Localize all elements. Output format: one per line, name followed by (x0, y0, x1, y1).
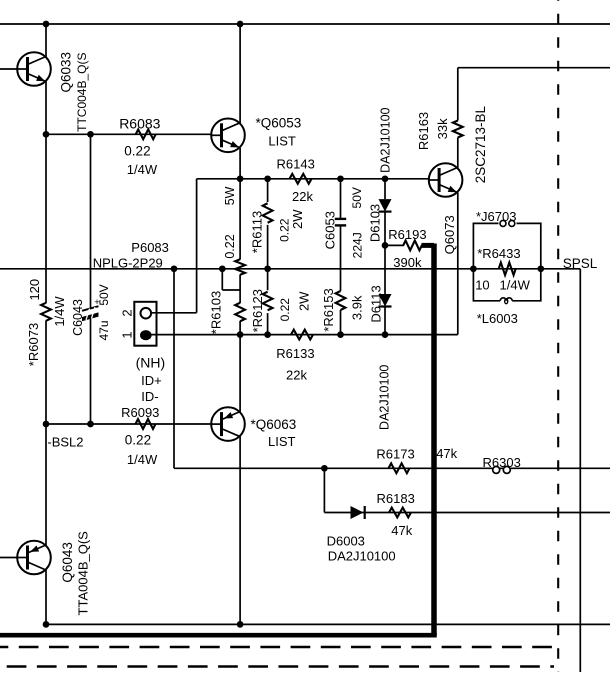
svg-text:*R6123: *R6123 (250, 289, 265, 332)
svg-text:50V: 50V (350, 187, 364, 208)
svg-text:*L6003: *L6003 (477, 311, 518, 326)
svg-text:C6043: C6043 (71, 299, 85, 336)
svg-text:50V: 50V (97, 284, 111, 305)
svg-text:33k: 33k (435, 118, 450, 139)
svg-text:-BSL2: -BSL2 (47, 434, 83, 449)
svg-text:D6103: D6103 (367, 204, 382, 242)
svg-text:R6183: R6183 (377, 491, 415, 506)
svg-text:R6133: R6133 (276, 346, 314, 361)
svg-text:TTA004B_Q(S: TTA004B_Q(S (75, 531, 90, 616)
svg-text:1: 1 (120, 331, 135, 338)
svg-text:LIST: LIST (268, 434, 296, 449)
svg-text:NPLG-2P29: NPLG-2P29 (93, 255, 163, 270)
svg-text:*R6073: *R6073 (26, 323, 41, 366)
svg-text:Q6033: Q6033 (58, 52, 73, 93)
svg-text:1/4W: 1/4W (127, 162, 158, 177)
svg-text:2W: 2W (296, 291, 311, 311)
svg-text:5W: 5W (223, 186, 237, 205)
svg-text:2W: 2W (290, 209, 305, 229)
svg-text:224J: 224J (351, 232, 365, 258)
svg-text:P6083: P6083 (131, 240, 169, 255)
svg-text:0.22: 0.22 (223, 234, 237, 258)
svg-text:R6163: R6163 (416, 112, 431, 150)
svg-text:*R6103: *R6103 (209, 291, 224, 334)
svg-text:R6173: R6173 (376, 446, 414, 461)
svg-text:47k: 47k (436, 446, 457, 461)
svg-text:Q6073: Q6073 (442, 215, 457, 254)
svg-text:R6193: R6193 (388, 227, 426, 242)
svg-text:390k: 390k (393, 255, 422, 270)
svg-text:1/4W: 1/4W (500, 278, 531, 293)
svg-text:0.22: 0.22 (125, 433, 151, 448)
svg-text:LIST: LIST (268, 134, 296, 149)
svg-text:2SC2713-BL: 2SC2713-BL (473, 105, 488, 183)
svg-text:DA2J10100: DA2J10100 (379, 107, 393, 172)
svg-text:2: 2 (120, 309, 135, 316)
svg-text:*R6153: *R6153 (321, 288, 336, 331)
svg-text:*Q6063: *Q6063 (251, 417, 297, 432)
svg-text:R6143: R6143 (277, 157, 315, 172)
svg-text:DA2J10100: DA2J10100 (378, 365, 392, 430)
svg-text:22k: 22k (286, 368, 307, 383)
svg-text:ID-: ID- (141, 389, 158, 404)
svg-text:*R6113: *R6113 (250, 211, 265, 253)
svg-text:*Q6053: *Q6053 (256, 116, 302, 131)
svg-text:R6303: R6303 (483, 455, 521, 470)
svg-text:1/4W: 1/4W (127, 452, 158, 467)
svg-text:*R6433: *R6433 (477, 246, 520, 261)
svg-text:D6113: D6113 (369, 285, 384, 322)
svg-text:*J6703: *J6703 (476, 209, 516, 224)
svg-text:47k: 47k (391, 523, 412, 538)
svg-text:1/4W: 1/4W (52, 296, 67, 327)
svg-text:10: 10 (475, 278, 489, 293)
svg-text:0.22: 0.22 (278, 298, 292, 322)
svg-text:(NH): (NH) (136, 355, 166, 371)
svg-text:47u: 47u (97, 320, 111, 340)
svg-text:SPSL: SPSL (563, 256, 598, 271)
svg-text:22k: 22k (292, 189, 313, 204)
svg-text:D6003: D6003 (327, 534, 365, 549)
svg-text:R6083: R6083 (119, 116, 160, 132)
svg-text:120: 120 (27, 279, 42, 301)
svg-text:C6053: C6053 (322, 211, 337, 249)
svg-text:TTC004B_Q(S: TTC004B_Q(S (75, 53, 89, 132)
svg-text:Q6043: Q6043 (60, 542, 75, 583)
svg-text:ID+: ID+ (141, 373, 162, 388)
svg-text:0.22: 0.22 (124, 144, 150, 159)
svg-text:DA2J10100: DA2J10100 (328, 548, 396, 563)
svg-text:3.9k: 3.9k (350, 295, 365, 320)
svg-text:R6093: R6093 (121, 405, 159, 420)
